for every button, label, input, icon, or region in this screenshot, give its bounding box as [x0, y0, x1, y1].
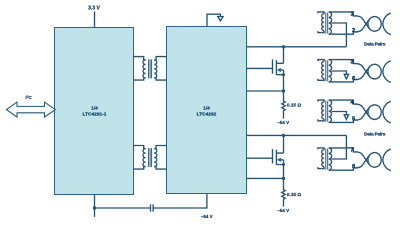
TX3 primary stub bottom: [318, 119, 324, 121]
Q2 channel bar: [275, 150, 277, 165]
node drain junction B: [282, 134, 285, 137]
I2C double arrow: [7, 102, 56, 117]
pair 4 twist loop: [368, 153, 381, 168]
wire Q2 source: [283, 160, 285, 179]
center tap ground arrow: [332, 71, 347, 74]
wire pin 6: [329, 80, 358, 82]
wire rail drain channel A: [247, 46, 347, 48]
transformer T1 (isolation, top, between U1 and U2): [134, 57, 167, 81]
svg-text:–54 V: –54 V: [201, 214, 213, 219]
wire 3.3V supply to U1: [94, 12, 96, 28]
svg-text:3.3 V: 3.3 V: [88, 5, 100, 11]
svg-text:1/4: 1/4: [203, 106, 210, 112]
svg-text:–54 V: –54 V: [277, 208, 289, 213]
svg-text:4: 4: [351, 100, 354, 106]
pair 4 wire A crossover: [357, 152, 370, 165]
wire gate channel A: [247, 67, 273, 69]
wire Q1 source: [283, 70, 285, 91]
transistor Q2 (NMOS channel B): [273, 135, 286, 178]
TX2 primary stub bottom: [318, 79, 324, 81]
Q1 drain, body and source stubs: [276, 63, 283, 74]
svg-text:Data Pairs: Data Pairs: [364, 132, 386, 137]
svg-text:1/4: 1/4: [91, 106, 98, 112]
svg-text:0.15 Ω: 0.15 Ω: [287, 103, 301, 108]
svg-text:Data Pairs: Data Pairs: [364, 42, 386, 47]
wire U1 bottom to -54V rail: [94, 195, 96, 218]
wire source sense channel A: [247, 90, 284, 92]
primary stub top: [318, 12, 324, 14]
TX4 primary stub bottom: [318, 167, 324, 169]
svg-text:7: 7: [351, 148, 354, 154]
TX2 core: [326, 60, 328, 81]
Q2 body arrow: [277, 158, 281, 162]
Q2 gate bar: [272, 149, 274, 163]
wire T2 secondary top to U2: [154, 146, 166, 149]
Q1 channel bar: [275, 60, 277, 75]
Q1 body arrow: [277, 68, 281, 72]
core: [326, 13, 328, 34]
svg-text:0.15 Ω: 0.15 Ω: [287, 192, 301, 197]
ethernet transformers right side: [318, 12, 391, 171]
TX3 center tap arrowhead: [344, 115, 348, 120]
TX2 secondary winding: [329, 60, 332, 82]
wire pin 3: [329, 60, 358, 64]
wire U1 to T1 primary top: [134, 57, 146, 60]
TX3 secondary winding: [329, 100, 332, 122]
twisted pair symbol channel 2: [357, 61, 391, 82]
pair 1 twist loop: [368, 17, 381, 32]
center tap ground arrow: [332, 112, 347, 115]
node source sense junction B: [282, 177, 285, 180]
wire U1 to T2 primary top: [134, 146, 146, 149]
node source sense junction A: [282, 89, 285, 92]
TX4 secondary winding: [329, 148, 332, 170]
svg-text:5: 5: [352, 116, 355, 122]
TX2 primary stub top: [318, 60, 324, 62]
primary stub bottom: [318, 31, 324, 33]
TX4 primary stub top: [318, 148, 324, 150]
TX2 primary winding: [322, 61, 325, 78]
pair 1 wire A crossover: [357, 16, 370, 29]
wire source sense channel B: [247, 177, 284, 179]
T2 primary winding: [143, 149, 146, 167]
wire center tap to drain rail B: [332, 135, 347, 159]
wire center tap to drain rail A: [332, 23, 347, 47]
wire Q1 drain: [283, 47, 285, 64]
TX4 primary winding: [322, 150, 325, 167]
wire pin 1: [329, 12, 358, 16]
wire T1 secondary bottom to U2: [154, 78, 166, 80]
pair 1 exit arc: [383, 13, 391, 34]
ground arrow above U2: [207, 14, 220, 26]
T1 primary winding: [143, 60, 146, 78]
svg-text:1: 1: [351, 12, 354, 18]
wire T1 secondary top to U2: [154, 57, 166, 60]
pair 3 exit arc: [383, 101, 391, 122]
svg-text:8: 8: [352, 164, 355, 170]
transistor Q1 (NMOS channel A): [273, 47, 286, 91]
primary winding: [322, 14, 325, 31]
pair 4 wire B crossover: [357, 155, 370, 168]
transformer TX4 (pins 7,8): [318, 135, 358, 170]
twisted pair symbol channel 1: [357, 13, 391, 34]
node Q1 source-body junction: [282, 73, 285, 76]
ground arrowhead above U2: [218, 17, 223, 21]
wire junction to capacitor C1: [95, 207, 151, 209]
wire U1 to T1 primary bottom: [134, 78, 146, 80]
wire rail drain channel B: [247, 134, 347, 136]
twisted pair symbol channel 3: [357, 101, 391, 122]
pair 2 exit arc: [383, 61, 391, 82]
pair 2 wire B crossover: [357, 67, 370, 80]
svg-text:LTC4291-1: LTC4291-1: [83, 111, 107, 117]
svg-text:I2C: I2C: [25, 95, 32, 101]
pair 4 exit arc: [383, 149, 391, 170]
wire Q2 drain: [283, 135, 285, 153]
svg-text:3: 3: [351, 59, 354, 65]
secondary winding: [329, 12, 332, 34]
svg-text:–54 V: –54 V: [277, 120, 289, 125]
wire pin 5: [329, 120, 358, 122]
wire pin 2: [329, 32, 358, 34]
TX2 center tap arrowhead: [344, 74, 348, 79]
wire capacitor C1 to U2 bottom: [153, 194, 207, 209]
wire U1 to T2 primary bottom: [134, 167, 146, 170]
wire pin 4: [329, 100, 358, 104]
resistor R1 0.15 ohm: [282, 91, 285, 119]
TX3 primary winding: [322, 102, 325, 119]
transformer T2 (isolation, bottom, between U1 and U2): [134, 146, 167, 170]
T1 secondary winding: [154, 60, 157, 78]
node drain junction A: [282, 45, 285, 48]
twisted pair symbol channel 4: [357, 149, 391, 170]
transformer TX2 (pins 3,6): [318, 60, 358, 82]
IC U2 LTC4292 block: [167, 27, 247, 194]
pair 2 twist loop: [368, 64, 381, 79]
Q1 gate bar: [272, 59, 274, 73]
IC U1 LTC4291-1 block: [55, 28, 134, 195]
transformer TX3 (pins 4,5): [318, 100, 358, 122]
wire T2 secondary bottom to U2: [154, 167, 166, 170]
capacitor C1: [151, 204, 154, 211]
svg-text:6: 6: [352, 76, 355, 82]
node junction at U1 bottom: [93, 206, 96, 209]
resistor R2 0.15 ohm: [282, 178, 285, 206]
wire pin 7: [329, 148, 358, 152]
transformer TX1 (pins 1,2): [318, 12, 358, 47]
TX3 core: [326, 101, 328, 122]
svg-text:2: 2: [352, 28, 355, 34]
pair 3 twist loop: [368, 105, 381, 120]
TX4 core: [326, 149, 328, 170]
svg-text:LTC4292: LTC4292: [197, 111, 217, 117]
T2 secondary winding: [154, 149, 157, 167]
T2 core: [149, 148, 152, 167]
pair 1 wire B crossover: [357, 19, 370, 32]
pair 2 wire A crossover: [357, 64, 370, 77]
TX3 primary stub top: [318, 100, 324, 102]
pair 3 wire B crossover: [357, 107, 370, 120]
node Q2 source-body junction: [282, 163, 285, 166]
pair 3 wire A crossover: [357, 104, 370, 117]
T1 core: [149, 59, 152, 78]
Q2 drain, body and source stubs: [276, 153, 283, 164]
wire gate channel B: [247, 157, 273, 159]
wire pin 8: [329, 168, 358, 170]
